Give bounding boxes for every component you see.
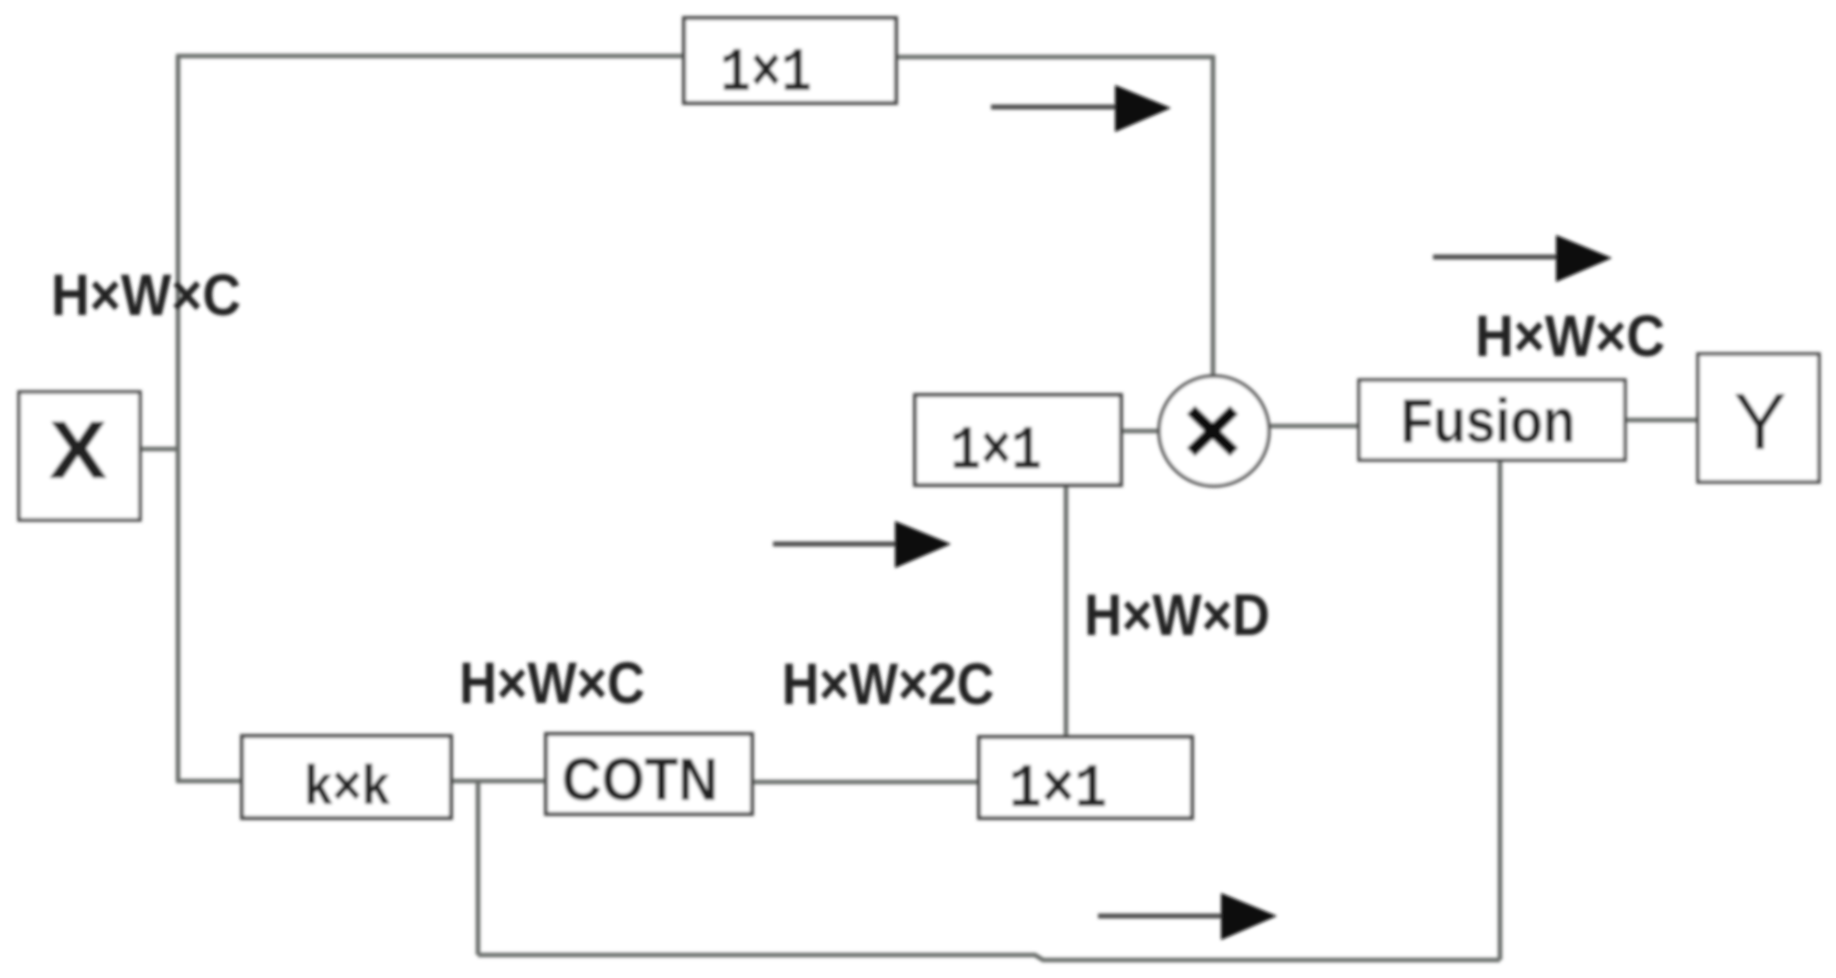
box COTN (546, 734, 752, 814)
arrow bottom flow indicator (1098, 893, 1277, 940)
multiply circle node (1159, 376, 1269, 486)
wire multiply circle to Fusion (1270, 424, 1359, 429)
wire COTN to bottom 1×1 (752, 780, 979, 785)
svg-text:H×W×D: H×W×D (1084, 582, 1270, 647)
wire elbow into k×k box (176, 779, 242, 784)
wire mid 1×1 to multiply circle (1121, 429, 1159, 434)
wire X output to main vertical (140, 447, 178, 452)
box Fusion (1359, 380, 1625, 460)
wire Fusion to Y (1625, 418, 1698, 423)
svg-text:H×W×2C: H×W×2C (782, 651, 994, 716)
wire right vertical up to Fusion (1498, 460, 1503, 960)
svg-text:Y: Y (1733, 377, 1786, 466)
wire junction drop below k×k (476, 781, 481, 955)
wire main left vertical from top rail to bottom branch (176, 56, 181, 781)
arrow upper-right flow indicator (1433, 235, 1612, 282)
wire k×k to COTN (451, 779, 546, 784)
box k×k conv (242, 736, 451, 818)
box 1×1 bottom conv (979, 737, 1192, 825)
svg-text:1×1: 1×1 (1009, 754, 1107, 825)
wire vertical down into multiply circle (1211, 55, 1216, 378)
svg-text:COTN: COTN (562, 747, 718, 814)
svg-text:H×W×C: H×W×C (51, 263, 241, 328)
svg-text:1×1: 1×1 (720, 40, 812, 110)
svg-text:X: X (49, 404, 108, 496)
box 1×1 top conv (684, 18, 896, 110)
wire mid 1×1 down to bottom 1×1 (1064, 485, 1069, 737)
box X input (19, 392, 140, 520)
svg-text:1×1: 1×1 (950, 418, 1042, 488)
wire top rail right segment (896, 55, 1213, 60)
wire top rail left segment (176, 54, 684, 59)
svg-text:k×k: k×k (304, 755, 390, 817)
box 1×1 middle conv (915, 395, 1121, 488)
box Y output (1698, 354, 1819, 482)
arrow middle flow indicator (773, 521, 951, 568)
wire bottom long rail with small jog (478, 955, 1500, 960)
arrow top flow indicator (991, 85, 1171, 132)
svg-text:H×W×C: H×W×C (459, 650, 645, 715)
svg-text:Fusion: Fusion (1401, 387, 1576, 456)
svg-text:H×W×C: H×W×C (1475, 304, 1665, 369)
